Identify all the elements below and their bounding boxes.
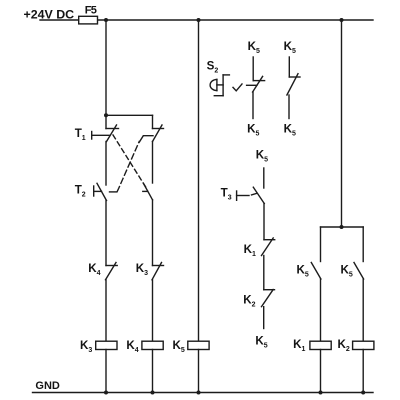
svg-text:K5: K5 — [284, 123, 296, 138]
svg-text:GND: GND — [35, 380, 60, 392]
svg-text:K5: K5 — [247, 123, 259, 138]
svg-text:K5: K5 — [173, 339, 185, 354]
svg-text:K1: K1 — [244, 243, 256, 258]
svg-text:K3: K3 — [80, 339, 92, 354]
svg-text:T2: T2 — [75, 183, 86, 198]
svg-text:T3: T3 — [221, 187, 232, 202]
svg-text:F5: F5 — [85, 4, 97, 16]
svg-text:S2: S2 — [207, 60, 219, 75]
svg-text:K1: K1 — [293, 338, 305, 353]
svg-text:K5: K5 — [248, 40, 260, 55]
svg-text:K4: K4 — [126, 339, 138, 354]
svg-text:K2: K2 — [243, 294, 255, 309]
svg-text:K5: K5 — [256, 149, 268, 164]
svg-text:K3: K3 — [136, 262, 148, 277]
svg-text:+24V DC: +24V DC — [24, 7, 75, 21]
svg-text:K5: K5 — [255, 334, 267, 349]
svg-text:K4: K4 — [88, 262, 100, 277]
svg-text:K5: K5 — [341, 264, 353, 279]
svg-text:K5: K5 — [297, 264, 309, 279]
svg-text:T1: T1 — [75, 127, 86, 142]
svg-text:K2: K2 — [338, 338, 350, 353]
svg-text:K5: K5 — [284, 40, 296, 55]
